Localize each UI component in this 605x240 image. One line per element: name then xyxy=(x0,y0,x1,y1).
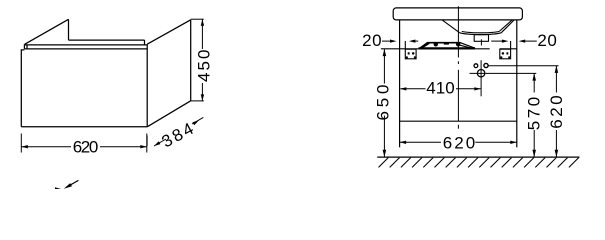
cabinet perspective view xyxy=(21,19,190,127)
svg-text:650: 650 xyxy=(374,85,393,121)
dimension 450 xyxy=(191,19,204,101)
drain centerline tick xyxy=(480,39,482,45)
right wall bracket xyxy=(500,41,511,59)
wire bottom rim line xyxy=(24,48,147,50)
wire top rim line xyxy=(24,44,147,46)
wire rim left cap b xyxy=(26,45,28,49)
svg-text:570: 570 xyxy=(524,97,543,131)
cabinet left side (rear view) xyxy=(399,20,401,147)
cabinet right side (rear view) xyxy=(516,20,518,147)
wire front right edge xyxy=(146,44,148,126)
wire back panel left edge xyxy=(68,19,70,40)
ground line xyxy=(377,156,579,158)
dimension 410 xyxy=(400,79,481,98)
dimension 384 depth xyxy=(147,117,203,146)
drain hole symbol xyxy=(470,60,537,96)
tap hole reference line xyxy=(488,65,559,67)
wire top-left hypotenuse edge xyxy=(25,19,69,44)
svg-text:620: 620 xyxy=(73,138,99,157)
wire bottom right depth edge xyxy=(147,101,191,127)
cabinet bottom line xyxy=(400,120,517,122)
svg-text:620: 620 xyxy=(547,95,566,129)
cabinet top line xyxy=(381,48,517,50)
left wall bracket xyxy=(405,41,416,59)
dimension 650 xyxy=(374,49,393,157)
cut-off leader arrow bottom left xyxy=(55,180,78,189)
wire top right depth edge xyxy=(147,20,191,44)
basin silhouette xyxy=(419,42,476,49)
dimension 570 xyxy=(524,73,543,157)
svg-text:20: 20 xyxy=(362,31,382,50)
tap holes xyxy=(474,64,478,68)
dimension 620 cabinet width xyxy=(21,134,147,153)
wire back rim line xyxy=(69,39,145,41)
dimension 620 bottom xyxy=(400,134,517,153)
wire back right edge xyxy=(190,20,192,101)
dimension 20 right xyxy=(491,31,557,50)
svg-text:410: 410 xyxy=(426,79,455,98)
wire left step xyxy=(21,50,24,127)
wire front bottom edge xyxy=(21,126,147,128)
wire rim right cap xyxy=(144,40,146,45)
wire rim left cap a xyxy=(23,44,25,49)
basin bowl outline xyxy=(442,20,514,35)
svg-text:20: 20 xyxy=(537,31,557,50)
centerline xyxy=(457,6,459,128)
svg-text:450: 450 xyxy=(194,50,213,83)
dimension 620 right xyxy=(547,66,566,157)
svg-text:620: 620 xyxy=(443,134,476,153)
drain boss xyxy=(474,35,488,42)
basin top slab xyxy=(393,8,522,20)
dimension 20 left xyxy=(362,31,418,50)
ground hatching xyxy=(379,158,579,168)
